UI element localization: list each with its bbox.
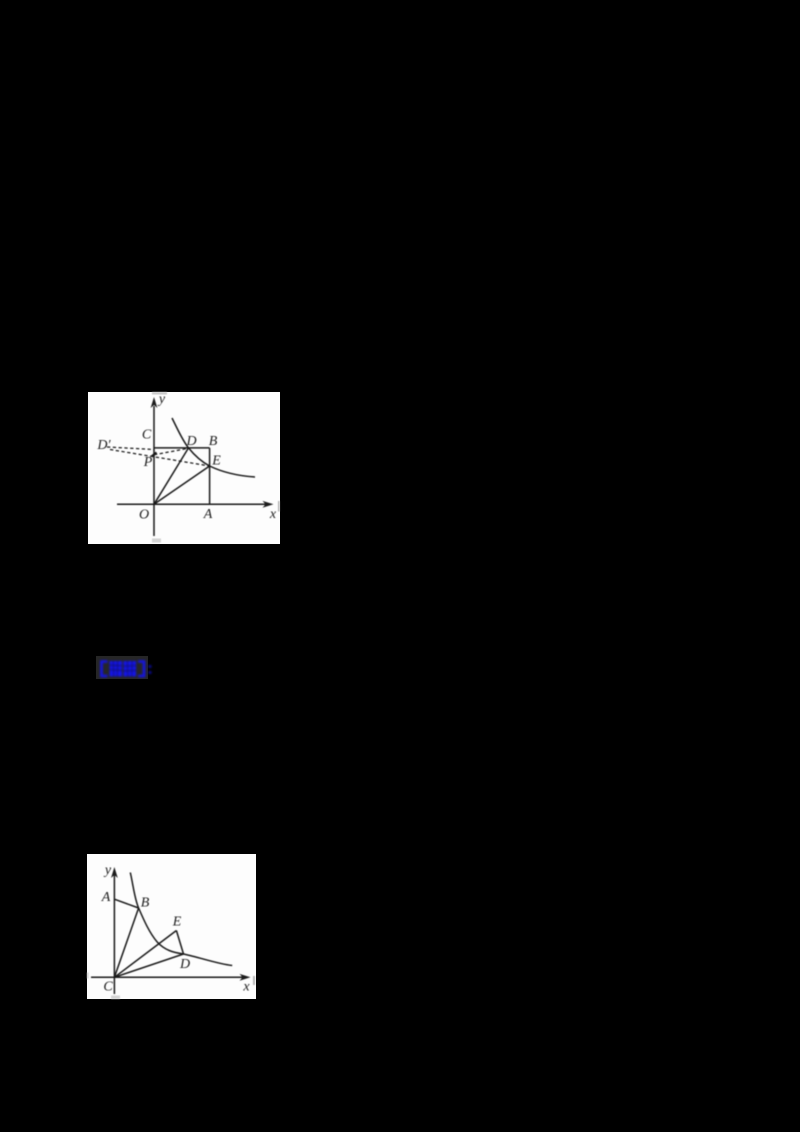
- x-axis: [117, 503, 266, 505]
- svg-text:O: O: [139, 508, 149, 523]
- svg-text:D′: D′: [96, 438, 111, 453]
- figure 2 box (triangle CDE with hyperbola): [87, 854, 256, 999]
- segment OD: [154, 448, 189, 504]
- gray caret mark right: [278, 501, 280, 512]
- svg-text:C: C: [142, 428, 152, 443]
- svg-text:A: A: [203, 507, 213, 522]
- segment ED: [176, 931, 183, 955]
- segment CE: [114, 931, 176, 978]
- rectangle edge BA: [209, 448, 211, 504]
- y-axis arrowhead: [111, 867, 118, 878]
- dashed line P to D: [154, 448, 189, 455]
- gray handle mark bottom: [111, 996, 120, 1000]
- segment CB: [114, 908, 138, 977]
- svg-text:P: P: [143, 455, 153, 470]
- dashed line D' to axis: [107, 447, 154, 450]
- svg-text:C: C: [103, 980, 113, 995]
- svg-text:D: D: [179, 957, 190, 972]
- segment AB: [114, 899, 138, 908]
- svg-text:B: B: [141, 896, 150, 911]
- blue character blob 1: [110, 661, 137, 677]
- figure 1 box (rectangle OABC with hyperbola): [88, 392, 280, 544]
- y-axis: [153, 406, 155, 536]
- gray handle mark top: [152, 392, 167, 395]
- segment CD: [114, 954, 183, 977]
- blue label box: [96, 656, 148, 679]
- svg-text:A: A: [101, 890, 111, 905]
- svg-text:E: E: [172, 915, 182, 930]
- y-axis arrowhead: [151, 397, 158, 408]
- blue bracket right: [138, 662, 144, 677]
- y-axis: [113, 875, 115, 994]
- hyperbola curve through D and E: [172, 418, 255, 477]
- x-axis arrowhead: [263, 501, 274, 508]
- svg-text:x: x: [269, 507, 277, 522]
- svg-text:E: E: [211, 454, 221, 469]
- gray handle mark left: [87, 973, 89, 979]
- blue bracket left: [102, 662, 108, 677]
- svg-text:D: D: [185, 434, 196, 449]
- svg-text:x: x: [242, 980, 250, 995]
- dashed line D' to E: [110, 450, 210, 467]
- svg-text:B: B: [209, 434, 218, 449]
- faint blue colon: [149, 665, 152, 674]
- x-axis: [91, 976, 243, 978]
- hyperbola curve through B and D: [130, 873, 232, 966]
- svg-text:y: y: [103, 863, 112, 878]
- segment OE: [154, 466, 210, 504]
- rectangle edge CB: [154, 447, 210, 449]
- junction mark at P: [152, 453, 157, 457]
- x-axis arrowhead: [240, 974, 251, 981]
- gray handle mark bottom: [152, 539, 161, 543]
- gray caret mark right: [253, 976, 255, 985]
